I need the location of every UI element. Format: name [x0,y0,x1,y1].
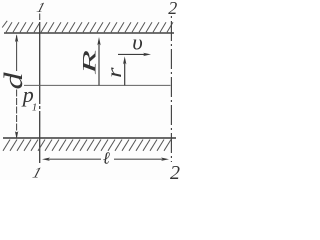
svg-text:d: d [0,71,28,89]
svg-text:1: 1 [32,101,38,113]
svg-text:2: 2 [168,0,177,18]
svg-text:ℓ: ℓ [103,149,110,168]
svg-text:r: r [104,67,126,78]
svg-text:2: 2 [170,162,180,180]
svg-text:υ: υ [132,30,143,55]
svg-text:R: R [80,49,101,76]
